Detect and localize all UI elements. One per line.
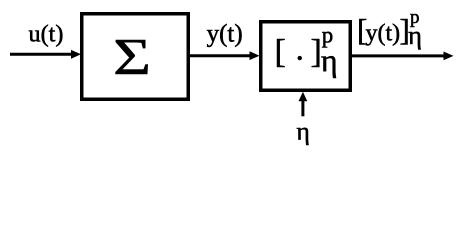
svg-text:η: η bbox=[296, 117, 310, 146]
svg-text:η: η bbox=[321, 42, 338, 78]
wire output arrow shaft bbox=[349, 54, 445, 57]
input arrowhead bbox=[71, 50, 81, 59]
middle arrowhead bbox=[250, 51, 260, 60]
block SIGMA (system box) bbox=[82, 14, 189, 100]
eta arrowhead bbox=[299, 92, 308, 102]
svg-text:y(t): y(t) bbox=[366, 21, 401, 47]
output arrowhead bbox=[444, 52, 454, 61]
wire eta input arrow shaft bbox=[301, 101, 304, 117]
block quantizer [.]^p_eta bbox=[261, 22, 351, 91]
svg-text:u(t): u(t) bbox=[29, 21, 64, 48]
svg-text:y(t): y(t) bbox=[207, 21, 243, 48]
svg-text:η: η bbox=[408, 20, 422, 50]
svg-text:[: [ bbox=[275, 34, 286, 71]
wire input arrow shaft bbox=[10, 53, 73, 56]
wire middle arrow shaft bbox=[189, 54, 251, 57]
svg-text:·: · bbox=[294, 41, 305, 77]
svg-text:Σ: Σ bbox=[113, 28, 151, 85]
